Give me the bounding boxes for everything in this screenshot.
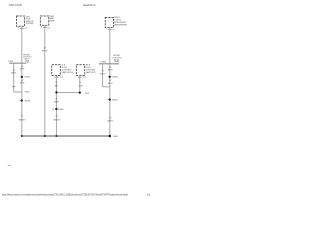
- svg-text:BK/GY: BK/GY: [20, 83, 25, 85]
- ground G301 dot: [109, 135, 112, 138]
- right mirror heater box: [76, 65, 85, 76]
- splice S233: [107, 99, 119, 102]
- pin 1 of right mirror: [106, 28, 115, 31]
- right mirror heater label: [86, 64, 96, 74]
- svg-text:14: 14: [27, 62, 29, 64]
- left mirror heater box: [52, 65, 61, 76]
- wire from mirror switch to ground bus: [44, 25, 46, 136]
- right door mirror label: [114, 17, 127, 27]
- svg-text:1: 1: [19, 100, 20, 102]
- wire from right mirror: [109, 28, 111, 64]
- right heater wire elbow to junction: [56, 75, 79, 92]
- pin 1 of left mirror: [18, 27, 27, 30]
- splice S301 dot: [79, 91, 81, 93]
- merge of branches: [14, 91, 22, 93]
- pin of left heater: [54, 76, 63, 78]
- svg-text:1/1: 1/1: [147, 192, 151, 196]
- passenger left branch label: [100, 71, 105, 76]
- right heater wire label: [79, 82, 84, 87]
- svg-text:BK/GY: BK/GY: [108, 83, 113, 85]
- pin of mirror switch: [41, 26, 49, 29]
- mirror switch label: [50, 16, 56, 23]
- svg-text:(PASSENGER): (PASSENGER): [114, 24, 127, 27]
- svg-text:C2: C2: [47, 28, 49, 30]
- svg-text:BK/GY: BK/GY: [108, 70, 113, 72]
- mirror switch box: [40, 16, 49, 25]
- svg-text:BK/GY: BK/GY: [42, 50, 48, 52]
- pin of right heater: [78, 76, 86, 78]
- left heater wire label: [55, 82, 59, 87]
- merge of passenger branches: [103, 86, 110, 88]
- svg-text:1: 1: [107, 99, 108, 101]
- heater drop lower label: [54, 116, 62, 121]
- left branch connector tick: [12, 86, 16, 88]
- left branch label: [11, 70, 16, 75]
- driver wire lower label: [19, 116, 27, 122]
- splice S346: [20, 76, 31, 79]
- switch wire label: [42, 48, 48, 53]
- main branch mid label: [20, 80, 25, 85]
- svg-text:BK/GY: BK/GY: [108, 120, 115, 122]
- left branch wire passenger circuit: [102, 64, 104, 87]
- harness note right: [113, 55, 123, 63]
- bus junction dot switch: [44, 135, 46, 137]
- svg-text:BK/GY: BK/GY: [20, 68, 25, 70]
- passenger main upper label: [108, 67, 113, 72]
- bus corner dot left: [21, 135, 23, 137]
- bus junction dot heater: [55, 135, 57, 137]
- wire from left mirror: [21, 26, 23, 63]
- svg-text:8: 8: [41, 26, 42, 28]
- svg-text:(A-B): (A-B): [114, 60, 119, 63]
- heater drop upper label: [54, 99, 59, 104]
- left door mirror box: [16, 16, 24, 26]
- svg-text:(DRIVER): (DRIVER): [26, 23, 34, 25]
- svg-text:BK/GY: BK/GY: [100, 73, 105, 75]
- svg-text:BK/GY: BK/GY: [11, 72, 16, 74]
- svg-text:https://library.chassis.com/us: https://library.chassis.com/usa/law-enfo…: [2, 192, 128, 196]
- splice S232: [19, 99, 31, 102]
- svg-text:C1: C1: [83, 76, 86, 78]
- svg-text:BK/GY: BK/GY: [19, 119, 27, 121]
- right door mirror box: [105, 17, 113, 27]
- svg-text:1: 1: [106, 28, 107, 30]
- svg-text:G301: G301: [113, 136, 119, 138]
- junction dot on heater drop: [55, 91, 57, 93]
- left door mirror label: [26, 16, 34, 25]
- passenger main mid label: [108, 80, 113, 85]
- in-line connector C380: [99, 63, 119, 65]
- svg-text:7/13/23, 1:08 PM: 7/13/23, 1:08 PM: [9, 3, 23, 7]
- svg-text:am: am: [8, 165, 11, 167]
- ground bus wire: [22, 135, 110, 137]
- passenger main wire to bus: [109, 64, 111, 136]
- splice S302: [52, 108, 65, 111]
- left mirror heater label: [62, 64, 73, 74]
- svg-text:LAMP (FRONT): LAMP (FRONT): [62, 71, 73, 74]
- svg-text:BK/GY: BK/GY: [54, 119, 62, 121]
- left branch wire driver circuit: [13, 63, 15, 92]
- svg-text:LAMP (FRT): LAMP (FRT): [86, 71, 96, 74]
- svg-text:C1: C1: [112, 29, 114, 31]
- svg-text:1: 1: [52, 109, 55, 111]
- left heater wire to bus: [55, 75, 57, 136]
- svg-text:C1: C1: [25, 28, 27, 30]
- splice S446: [108, 76, 119, 79]
- harness note left: [23, 55, 32, 63]
- svg-text:RELAY: RELAY: [50, 19, 56, 22]
- svg-text:C1: C1: [60, 76, 63, 78]
- passenger wire lower label: [108, 117, 115, 122]
- driver main wire to ground bus: [21, 63, 23, 136]
- svg-text:Heated Mirrors: Heated Mirrors: [83, 3, 96, 7]
- main branch upper label: [20, 66, 25, 71]
- svg-text:1: 1: [18, 27, 19, 29]
- in-line connector C280: [9, 62, 26, 64]
